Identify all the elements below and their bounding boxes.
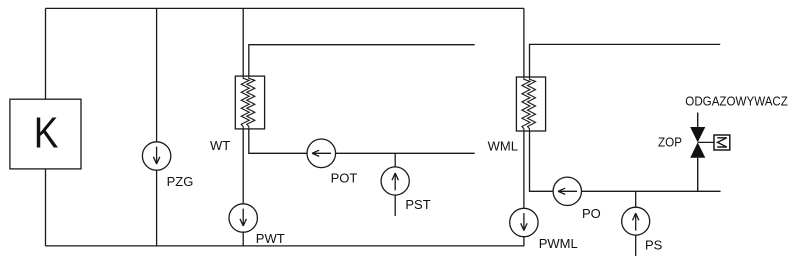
pump POT [307, 139, 336, 168]
svg-text:WML: WML [488, 139, 518, 154]
wire: WT secondary supply out (upper) [249, 45, 475, 76]
wire: boiler return drop (K bottom to return header) [45, 169, 47, 246]
svg-text:PS: PS [645, 237, 663, 252]
svg-text:PST: PST [405, 197, 430, 212]
wire: WML secondary supply out (upper right) [530, 44, 721, 77]
wire: WT primary strand (header through exchanger down to PWT) [242, 8, 244, 203]
pump PWT [229, 204, 257, 232]
wire: PST branch stem [394, 153, 396, 216]
heat exchanger WT [235, 76, 264, 129]
valve ZOP (two filled triangles) [690, 127, 705, 142]
wire: top supply header from boiler riser to WML [46, 7, 524, 9]
wire: valve to actuator [698, 141, 714, 143]
wire: PZG branch vertical [156, 8, 158, 246]
wire: valve ZOP to PO line [697, 158, 699, 192]
pump PST [381, 167, 409, 195]
pump PWML [510, 208, 538, 236]
wire: PWT to return header [242, 232, 244, 246]
wire: PS branch stem [635, 191, 637, 256]
wire: WML secondary return (lower) PO line [530, 131, 721, 191]
heat exchanger WML [516, 77, 545, 131]
boiler K [10, 99, 81, 169]
svg-text:WT: WT [210, 138, 230, 153]
wire: WT secondary return (lower) to POT line [249, 129, 475, 153]
svg-text:ZOP: ZOP [658, 134, 682, 149]
svg-text:K: K [34, 108, 59, 158]
wire: deaerator drop above valve ZOP [697, 113, 699, 128]
wire: PWML to return header end [523, 237, 525, 246]
svg-text:PZG: PZG [167, 174, 194, 189]
pump PS [622, 207, 650, 235]
wire: bottom return header [46, 245, 525, 247]
pump PZG [142, 142, 170, 170]
pump PO [553, 177, 581, 205]
wire: boiler riser (K top to header) [45, 8, 47, 99]
wire: WML primary strand (header corner down through exchanger to PWML) [523, 8, 525, 208]
svg-text:PO: PO [582, 206, 601, 221]
svg-text:PWT: PWT [256, 231, 285, 246]
actuator box (electromagnet M) [714, 135, 730, 150]
svg-text:ODGAZOWYWACZ: ODGAZOWYWACZ [685, 94, 788, 109]
svg-text:PWML: PWML [539, 236, 578, 251]
svg-text:POT: POT [331, 170, 358, 185]
